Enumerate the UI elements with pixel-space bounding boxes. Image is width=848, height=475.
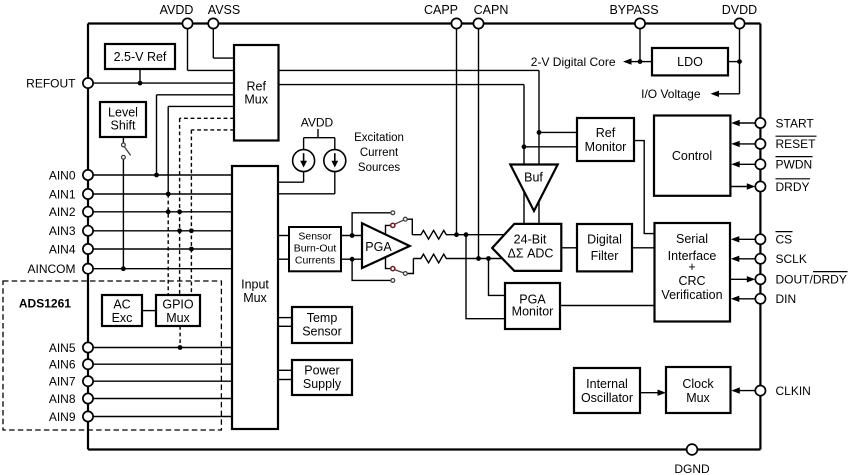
svg-text:AIN1: AIN1 xyxy=(49,187,76,201)
svg-text:Power: Power xyxy=(304,364,339,378)
svg-text:DOUT/DRDY: DOUT/DRDY xyxy=(776,273,847,287)
svg-text:2.5-V Ref: 2.5-V Ref xyxy=(114,50,167,64)
svg-text:Temp: Temp xyxy=(307,311,338,325)
svg-text:BYPASS: BYPASS xyxy=(609,3,658,17)
svg-text:Ref: Ref xyxy=(596,126,616,140)
svg-text:CS: CS xyxy=(776,233,793,247)
svg-text:Level: Level xyxy=(108,105,138,119)
svg-text:Currents: Currents xyxy=(295,254,335,266)
svg-text:DGND: DGND xyxy=(674,462,710,475)
svg-text:AIN6: AIN6 xyxy=(49,358,76,372)
svg-text:Verification: Verification xyxy=(661,288,722,302)
svg-text:Mux: Mux xyxy=(166,311,190,325)
svg-text:Burn-Out: Burn-Out xyxy=(294,242,337,254)
svg-text:AIN4: AIN4 xyxy=(49,242,76,256)
svg-text:AIN0: AIN0 xyxy=(49,168,76,182)
svg-text:AIN7: AIN7 xyxy=(49,375,76,389)
svg-text:Control: Control xyxy=(672,149,712,163)
svg-text:AIN3: AIN3 xyxy=(49,224,76,238)
svg-text:AIN2: AIN2 xyxy=(49,205,76,219)
svg-text:Digital: Digital xyxy=(587,233,622,247)
svg-text:Monitor: Monitor xyxy=(585,140,627,154)
svg-text:DVDD: DVDD xyxy=(722,3,757,17)
svg-text:ADS1261: ADS1261 xyxy=(19,296,71,310)
svg-text:2-V Digital Core: 2-V Digital Core xyxy=(531,55,616,69)
svg-text:Excitation: Excitation xyxy=(354,132,404,144)
svg-text:I/O Voltage: I/O Voltage xyxy=(641,87,701,101)
svg-text:AINCOM: AINCOM xyxy=(28,262,76,276)
svg-text:Sensor: Sensor xyxy=(302,325,342,339)
svg-text:PGA: PGA xyxy=(365,240,392,254)
svg-text:Supply: Supply xyxy=(303,377,342,391)
svg-text:Mux: Mux xyxy=(243,291,267,305)
svg-text:RESET: RESET xyxy=(776,137,817,151)
svg-text:Exc: Exc xyxy=(112,311,133,325)
svg-text:Serial: Serial xyxy=(676,232,708,246)
svg-text:SCLK: SCLK xyxy=(776,252,807,266)
svg-text:CAPN: CAPN xyxy=(474,3,509,17)
svg-text:CRC: CRC xyxy=(678,274,705,288)
svg-text:Monitor: Monitor xyxy=(512,305,554,319)
svg-text:+: + xyxy=(688,260,695,274)
svg-text:CAPP: CAPP xyxy=(424,3,458,17)
svg-text:CLKIN: CLKIN xyxy=(776,384,811,398)
svg-text:AIN5: AIN5 xyxy=(49,341,76,355)
svg-text:AC: AC xyxy=(113,297,130,311)
svg-text:24-Bit: 24-Bit xyxy=(514,233,547,247)
svg-text:Current: Current xyxy=(360,147,399,159)
svg-text:START: START xyxy=(776,116,815,130)
svg-text:DRDY: DRDY xyxy=(776,180,810,194)
svg-text:Mux: Mux xyxy=(686,391,710,405)
svg-text:AVDD: AVDD xyxy=(301,115,334,129)
svg-text:Sources: Sources xyxy=(358,162,400,174)
svg-text:Internal: Internal xyxy=(586,377,628,391)
svg-text:DIN: DIN xyxy=(776,292,797,306)
svg-text:Clock: Clock xyxy=(682,377,714,391)
svg-text:Filter: Filter xyxy=(591,249,619,263)
svg-text:Input: Input xyxy=(241,278,269,292)
svg-text:LDO: LDO xyxy=(677,55,703,69)
svg-text:AIN8: AIN8 xyxy=(49,392,76,406)
svg-text:Buf: Buf xyxy=(524,171,543,185)
svg-text:ΔΣ ADC: ΔΣ ADC xyxy=(508,247,554,261)
svg-text:Oscillator: Oscillator xyxy=(581,391,633,405)
svg-text:AVSS: AVSS xyxy=(208,3,240,17)
svg-text:REFOUT: REFOUT xyxy=(26,76,76,90)
svg-text:Sensor: Sensor xyxy=(298,230,332,242)
svg-text:Ref: Ref xyxy=(246,79,266,93)
svg-text:GPIO: GPIO xyxy=(162,297,194,311)
svg-text:Shift: Shift xyxy=(110,119,136,133)
svg-text:AVDD: AVDD xyxy=(160,3,194,17)
svg-text:Mux: Mux xyxy=(244,93,268,107)
svg-text:PWDN: PWDN xyxy=(776,158,813,172)
svg-text:AIN9: AIN9 xyxy=(49,410,76,424)
